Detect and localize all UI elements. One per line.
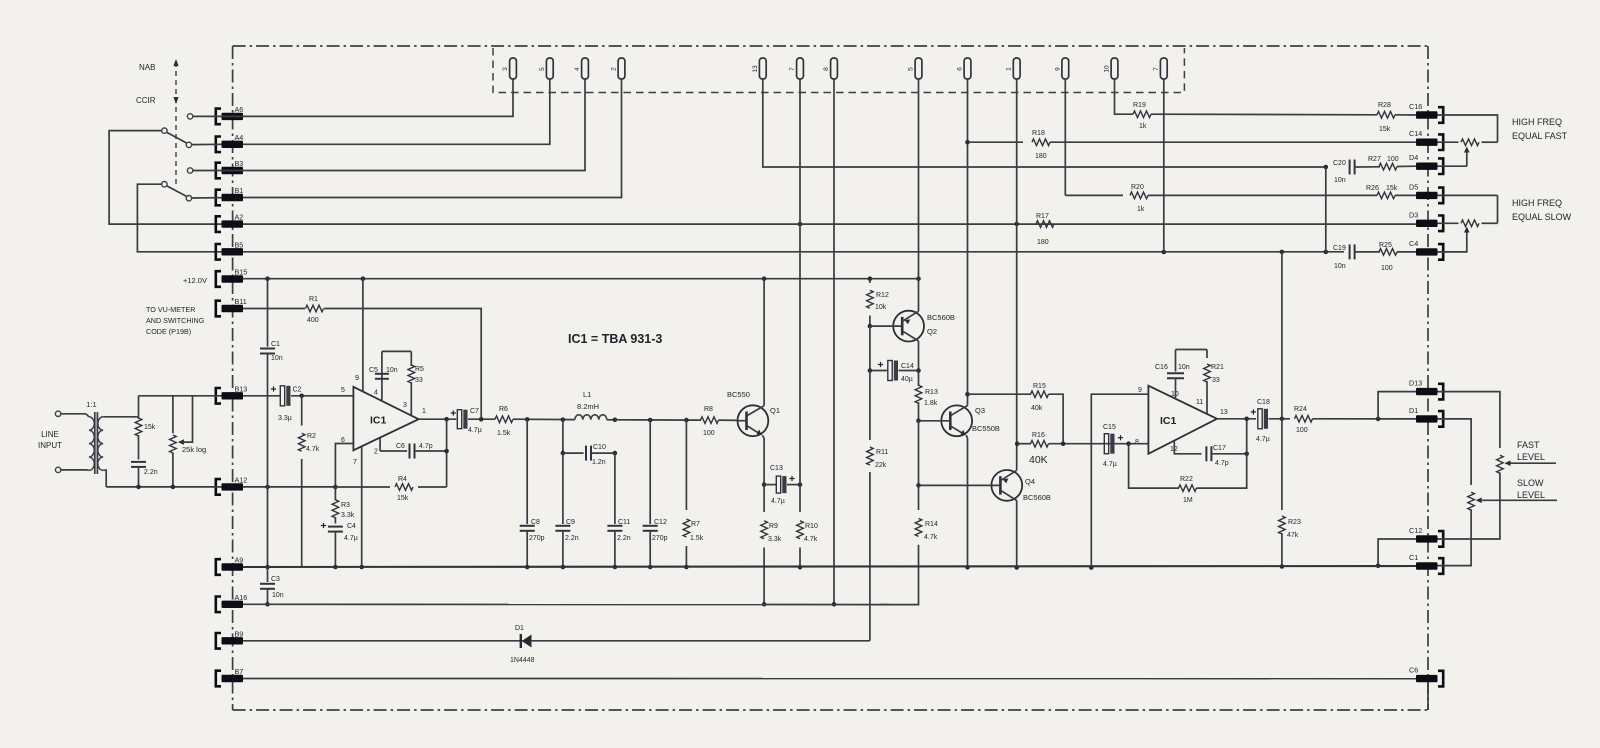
frame: right dash-dot border (1427, 46, 1429, 710)
svg-text:1: 1 (1006, 67, 1013, 71)
switch S2 throw contact (186, 196, 191, 201)
resistor R15 (40k) (968, 383, 1064, 444)
connector box (dashed) (493, 48, 1184, 93)
wire: C6 pad to bottom border (1427, 682, 1429, 710)
wire: secondary bottom to A12 row (103, 470, 106, 487)
svg-text:R10: R10 (805, 523, 818, 530)
svg-text:A4: A4 (235, 133, 244, 142)
resistor R14 (4.7k) (880, 485, 938, 604)
svg-text:C19: C19 (1333, 245, 1346, 252)
svg-text:R24: R24 (1294, 406, 1307, 413)
connector pin 13 (x=762.8) (752, 58, 766, 79)
svg-text:1N4448: 1N4448 (510, 657, 535, 664)
wire: A2 row (switch S1 common to D3 pad) (243, 223, 1416, 225)
pin label 13 (IC1b) (1220, 409, 1228, 416)
svg-text:180: 180 (1035, 153, 1047, 160)
svg-text:B11: B11 (235, 297, 247, 306)
svg-text:2: 2 (374, 449, 378, 456)
polarity + of C13 (789, 476, 794, 481)
svg-text:HIGH FREQ: HIGH FREQ (1512, 117, 1562, 127)
svg-text:4.7µ: 4.7µ (1103, 461, 1117, 468)
connector pin 5 (x=918.5) (908, 58, 922, 79)
wire: Q3 base node to Q4 base node (918, 421, 920, 486)
svg-text:R6: R6 (499, 406, 508, 413)
resistor R8 (100) (701, 406, 738, 437)
svg-text:3.3k: 3.3k (341, 512, 355, 519)
resistor R11 (22k) (867, 371, 889, 641)
svg-text:BC550B: BC550B (972, 424, 1000, 433)
wire: IC1a pin2 to C6 (379, 438, 381, 451)
svg-text:3.3k: 3.3k (768, 536, 782, 543)
svg-text:15k: 15k (144, 424, 156, 431)
svg-text:Q4: Q4 (1025, 477, 1035, 486)
resistor R22 (1M) (1179, 419, 1247, 504)
junction ground/pin7 (359, 565, 364, 570)
switch S2 lever (167, 186, 187, 197)
LINE INPUT terminal lower (55, 467, 60, 472)
svg-text:R28: R28 (1378, 102, 1391, 109)
capacitor C18 (4.7u) (1256, 399, 1270, 443)
capacitor C11 (2.2n) (607, 453, 630, 567)
op-amp IC1a (TBA931 first half) (353, 387, 418, 451)
wire: pin13 vertical (x=762.8 to EQ row) (763, 79, 1326, 167)
wire: R18 row (968, 141, 1024, 143)
svg-text:R15: R15 (1033, 383, 1046, 390)
svg-text:10n: 10n (272, 592, 284, 599)
svg-text:8.2mH: 8.2mH (577, 402, 599, 411)
wire: IC1a pin9 to +12V (362, 279, 364, 392)
svg-text:R25: R25 (1379, 242, 1392, 249)
resistor R20 (1k) (1130, 184, 1148, 213)
svg-text:C16: C16 (1409, 102, 1422, 111)
resistor R24 (100) (1294, 406, 1313, 434)
connector pad D1 (1409, 406, 1443, 427)
connector pad B15 (216, 268, 247, 287)
svg-text:C12: C12 (654, 519, 667, 526)
transistor Q1 (BC550) (727, 390, 780, 436)
svg-text:4.7k: 4.7k (804, 536, 818, 543)
svg-text:SLOW: SLOW (1517, 478, 1544, 488)
polarity + of C14 (878, 362, 883, 367)
svg-text:40K: 40K (1029, 454, 1048, 466)
svg-text:R9: R9 (769, 523, 778, 530)
junction Q2 collector/C14 (916, 368, 921, 373)
capacitor C12 (270p) (643, 420, 668, 567)
svg-text:9: 9 (1054, 67, 1061, 71)
wire: R20 row (1065, 194, 1123, 196)
switch S2 pivot contact (162, 182, 167, 187)
label LINE INPUT (38, 430, 62, 450)
junction ground/C9 (561, 565, 566, 570)
connector pad C6 (1409, 666, 1443, 687)
wire: R12 node to C14 node (869, 326, 871, 370)
svg-text:R23: R23 (1288, 519, 1301, 526)
wire: B5 to output vertical with R23 (1281, 252, 1283, 510)
polarity + of C2 (271, 386, 276, 391)
svg-text:B9: B9 (235, 629, 244, 638)
wire: R22 feedback (1129, 444, 1179, 488)
svg-text:FAST: FAST (1517, 440, 1540, 450)
svg-text:C16: C16 (1155, 364, 1168, 371)
capacitor C3 (10n) (260, 567, 284, 604)
svg-text:R13: R13 (925, 389, 938, 396)
svg-text:7: 7 (353, 459, 357, 466)
junction A16/pin8 vertical (832, 602, 837, 607)
svg-text:BC560B: BC560B (927, 313, 955, 322)
wire: D13 branch (1378, 392, 1416, 419)
wire: A4 row (192, 79, 550, 145)
label +12.0V (183, 276, 207, 285)
svg-text:4.7p: 4.7p (1215, 460, 1229, 467)
junction A12/15k-2.2n (136, 485, 141, 490)
svg-text:R8: R8 (704, 406, 713, 413)
svg-text:A2: A2 (235, 213, 244, 222)
wire: pin10 vertical (x=1114.5) (1115, 79, 1134, 114)
wire: R28 to C16 pad (1395, 114, 1416, 116)
wire: A12 node to ground rail (267, 487, 269, 567)
capacitor C14 (40u) (870, 361, 919, 384)
wire: C12 pad row to ground (1378, 539, 1416, 566)
svg-text:100: 100 (1387, 156, 1399, 163)
svg-text:B3: B3 (235, 159, 244, 168)
junction B5/C19 vertical (1324, 250, 1329, 255)
resistor R13 (1.8k) (915, 385, 938, 421)
capacitor C2 (electrolytic 3.3u) (278, 386, 302, 422)
svg-text:10n: 10n (1334, 263, 1346, 270)
svg-text:4.7k: 4.7k (924, 534, 938, 541)
svg-text:C14: C14 (1409, 129, 1422, 138)
junction ground/C4 (333, 565, 338, 570)
resistor R25 (1379, 242, 1397, 272)
connector pad A16 (216, 593, 247, 612)
svg-text:IC1: IC1 (1160, 415, 1177, 427)
connector pad D13 (1409, 379, 1443, 400)
wire: Q3 emitter to ground (966, 435, 967, 567)
wire: L1 right to junction (607, 419, 615, 421)
capacitor C17 (4.7p) (1206, 445, 1246, 467)
wire: R24 to D1 pad (1313, 418, 1417, 420)
svg-text:NAB: NAB (139, 63, 155, 72)
svg-text:+12.0V: +12.0V (183, 276, 207, 285)
junction output/feedback (IC1b) (1244, 417, 1249, 422)
wire: D4 pad to FAST wiper (1438, 165, 1467, 167)
svg-text:R20: R20 (1131, 184, 1144, 191)
junction B5/output vertical (1280, 250, 1285, 255)
resistor R4 (15k feedback) (335, 476, 446, 502)
svg-text:270p: 270p (652, 535, 668, 542)
ground rail (A9 row) (243, 566, 1416, 567)
svg-text:L1: L1 (583, 390, 591, 399)
svg-text:C17: C17 (1213, 445, 1226, 452)
svg-text:10: 10 (1104, 65, 1111, 73)
transistor Q2 (BC560B) (870, 311, 955, 342)
svg-text:R12: R12 (876, 292, 889, 299)
svg-text:C2: C2 (293, 387, 302, 394)
svg-text:A6: A6 (235, 105, 244, 114)
connector pad A6 (216, 105, 243, 124)
svg-text:9: 9 (355, 375, 359, 382)
svg-text:33: 33 (415, 377, 423, 384)
svg-text:C6: C6 (396, 443, 405, 450)
pin label 3 (403, 402, 407, 409)
capacitor C6 (4.7p) (380, 443, 447, 459)
svg-text:TO VU-METER: TO VU-METER (146, 305, 195, 314)
wire: secondary top to 15k node (103, 396, 138, 417)
junction feedback/C6 (444, 449, 449, 454)
junction R11 top/C14 (868, 368, 873, 373)
junction ground/Q3 emitter (965, 565, 970, 570)
svg-text:INPUT: INPUT (38, 441, 62, 450)
wire: D13 pad to FAST LEVEL pot (1438, 392, 1500, 448)
wire: D5 pad to corner (1438, 194, 1498, 196)
svg-text:10n: 10n (1178, 364, 1190, 371)
resistor R16 (40k) (1017, 432, 1101, 466)
junction output row/B5 vertical (1280, 417, 1285, 422)
svg-text:5: 5 (341, 387, 345, 394)
svg-text:1.5k: 1.5k (497, 430, 511, 437)
svg-text:11: 11 (1196, 399, 1203, 406)
label TO VU-METER (146, 305, 205, 336)
svg-text:Q2: Q2 (927, 327, 937, 336)
connector pin 4 (x=585.0) (574, 58, 588, 79)
wire: Q4 collector to ground (1016, 501, 1018, 568)
svg-text:8: 8 (823, 67, 830, 71)
svg-text:100: 100 (1296, 427, 1308, 434)
potentiometer 25k log (170, 396, 207, 487)
open contact at B3 row (187, 168, 192, 173)
capacitor C20 (10n) (1333, 160, 1355, 185)
wire: R6 to L1 node (513, 418, 575, 420)
wire: C4 pad to SLOW wiper (1438, 231, 1467, 252)
wiper arrow FAST LEVEL (1505, 460, 1557, 466)
wire: B13 row (input node) (139, 395, 281, 397)
connector pad C12 (1409, 526, 1443, 547)
svg-text:C1: C1 (271, 341, 280, 348)
svg-text:R11: R11 (876, 449, 888, 456)
wire: Q3 collector rise (967, 394, 969, 405)
connector pin 8 (x=834.0) (823, 58, 837, 79)
svg-text:15k: 15k (1379, 126, 1391, 133)
resistor R17 (1036, 213, 1054, 246)
svg-text:22k: 22k (875, 462, 887, 469)
LINE INPUT terminal upper (55, 411, 60, 416)
svg-text:4: 4 (574, 67, 581, 71)
svg-text:R4: R4 (398, 476, 407, 483)
svg-text:4.7p: 4.7p (419, 443, 433, 450)
transistor Q3 (BC550B) (919, 405, 1000, 436)
wiper arrow 25k pot (178, 396, 193, 445)
svg-text:100: 100 (1381, 265, 1393, 272)
svg-text:Q1: Q1 (770, 406, 780, 415)
svg-text:4.7µ: 4.7µ (468, 427, 482, 434)
potentiometer FAST EQ (on C14 row) (1438, 139, 1498, 146)
svg-text:IC1: IC1 (370, 415, 387, 427)
junction A16/R9 (762, 602, 767, 607)
svg-text:1: 1 (422, 408, 426, 415)
potentiometer FAST LEVEL (1497, 455, 1504, 473)
wire: FAST LEVEL pot to C12 row (1438, 472, 1500, 539)
junction signal/L1 right (613, 418, 618, 423)
resistor R3 (3.3k) (332, 487, 355, 524)
junction +12V/Q2 emitter (pin 5 feed) (916, 276, 921, 281)
wire: IC1a output (419, 418, 457, 420)
svg-text:R21: R21 (1211, 364, 1224, 371)
wire: C18 to R24 (1269, 418, 1291, 420)
svg-text:A12: A12 (235, 475, 248, 484)
svg-text:C4: C4 (1409, 239, 1418, 248)
svg-text:2.2n: 2.2n (565, 535, 579, 542)
pin label 8 (IC1b) (1135, 439, 1139, 446)
transistor Q4 (BC560B) (919, 470, 1051, 502)
svg-text:D1: D1 (1409, 406, 1418, 415)
wire: feedback vertical (446, 419, 448, 487)
svg-text:13: 13 (752, 65, 759, 73)
svg-text:3.3µ: 3.3µ (278, 415, 292, 422)
resistor R6 (1.5k) (495, 406, 513, 437)
wire: S2 common to B5 row (137, 184, 221, 252)
svg-text:47k: 47k (1287, 532, 1299, 539)
svg-text:R27: R27 (1368, 156, 1381, 163)
junction Q1 emitter/C13 (762, 482, 767, 487)
svg-text:2.2n: 2.2n (617, 535, 631, 542)
svg-text:R22: R22 (1180, 476, 1193, 483)
resistor R21 (33) (1204, 350, 1224, 414)
svg-text:A9: A9 (235, 556, 244, 565)
wire: pin7b vertical (x=1163.8) (1163, 79, 1165, 252)
svg-text:7: 7 (1153, 67, 1160, 71)
svg-text:B15: B15 (235, 268, 248, 277)
wire: +12V rail (B15 row) (243, 278, 919, 280)
wiper arrow FAST EQ pot (1464, 147, 1470, 167)
capacitor C8 (270p) (520, 419, 545, 567)
wiper arrow SLOW pot (1464, 227, 1470, 233)
capacitor C4 (4.7u) (328, 523, 358, 567)
svg-text:8: 8 (1135, 439, 1139, 446)
svg-text:4: 4 (374, 390, 378, 397)
svg-text:1:1: 1:1 (86, 400, 96, 409)
svg-text:C20: C20 (1333, 160, 1346, 167)
svg-text:IC1 = TBA 931-3: IC1 = TBA 931-3 (568, 332, 662, 346)
wire: IC1b output (1217, 418, 1256, 420)
resistor R9 (3.3k) (761, 485, 782, 605)
pin label 9 (IC1b) (1138, 387, 1142, 394)
wire: pin6 vertical (x=967.5) (967, 79, 969, 394)
pin label 11 (IC1b) (1196, 399, 1203, 406)
wire: A6 row (193, 79, 513, 116)
junction ground/C11 (613, 565, 618, 570)
junction pin8/R22 drop (1126, 441, 1131, 446)
wire: R18 to C14 pad (1050, 141, 1416, 143)
resistor R12 (10k) (867, 279, 889, 326)
svg-text:2.2n: 2.2n (144, 469, 158, 476)
transformer T1 secondary winding (98, 417, 103, 471)
open contact at A6 row (187, 114, 192, 119)
connector pad C14 (1409, 129, 1443, 150)
svg-text:1.8k: 1.8k (924, 400, 938, 407)
svg-text:C18: C18 (1257, 399, 1270, 406)
svg-text:BC550: BC550 (727, 390, 750, 399)
label HIGH FREQ EQUAL SLOW (1512, 198, 1572, 222)
svg-text:3: 3 (403, 402, 407, 409)
svg-text:180: 180 (1037, 239, 1049, 246)
wire: B5 row (243, 251, 1344, 253)
svg-text:R2: R2 (307, 433, 316, 440)
svg-text:CCIR: CCIR (136, 96, 156, 105)
svg-text:Q3: Q3 (975, 406, 985, 415)
polarity + of C18 (1251, 409, 1256, 414)
connector pin 9 (x=1065.3) (1054, 58, 1068, 79)
wire: C16 pad to corner (1438, 115, 1498, 142)
wire: IC1b pin12 to C17 (1174, 441, 1201, 454)
svg-text:1M: 1M (1183, 497, 1193, 504)
connector pad A2 (216, 213, 243, 232)
junction ground/C1 vertical (265, 565, 270, 570)
NAB-CCIR dashed travel line (175, 62, 177, 184)
svg-text:R14: R14 (925, 521, 938, 528)
junction D13 branch (1376, 417, 1381, 422)
junction A2/pin7-vertical (798, 222, 803, 227)
svg-text:15k: 15k (1386, 185, 1398, 192)
junction +12V/C1 (265, 276, 270, 281)
svg-text:2: 2 (611, 67, 618, 71)
pin label 1 (422, 408, 426, 415)
junction Q4 base row (916, 483, 921, 488)
svg-text:R26: R26 (1366, 185, 1379, 192)
capacitor C1 (10n decoupling) (260, 279, 283, 487)
capacitor C19 (1333, 244, 1355, 270)
svg-text:C12: C12 (1409, 526, 1422, 535)
capacitor C5 (10n comp) (369, 367, 398, 379)
junction output/feedback (444, 417, 449, 422)
resistor R5 (33) (408, 351, 424, 415)
svg-text:270p: 270p (529, 535, 545, 542)
svg-text:D3: D3 (1409, 210, 1418, 219)
svg-text:C14: C14 (901, 363, 914, 370)
svg-text:C8: C8 (531, 519, 540, 526)
potentiometer SLOW LEVEL (1468, 492, 1475, 510)
svg-text:R18: R18 (1032, 130, 1045, 137)
junction C17/feedback vertical (1244, 452, 1249, 457)
wire: pin8 vertical (x=834) (833, 79, 835, 604)
junction Q3 collector/R15 row (965, 392, 970, 397)
svg-text:4.7µ: 4.7µ (1256, 436, 1270, 443)
svg-text:10k: 10k (875, 304, 887, 311)
wire: C20 to R27 (1355, 166, 1380, 168)
connector pin 3 (x=513.0) (502, 58, 516, 79)
capacitor 2.2n (input) (131, 462, 158, 487)
label IC1 = TBA 931-3 (568, 332, 662, 346)
svg-text:1k: 1k (1139, 123, 1147, 130)
connector pad D3 (1409, 210, 1443, 231)
wire: SLOW pair coupling (D5 to D3 right ends) (1497, 195, 1499, 223)
junction pin6/R3/R4/A12 (333, 485, 338, 490)
label SLOW LEVEL (1517, 478, 1545, 500)
svg-text:10n: 10n (271, 355, 283, 362)
pin label 2 (374, 449, 378, 456)
wiper arrow SLOW LEVEL (1476, 498, 1557, 504)
junction C13/R10/pin-vertical (798, 482, 803, 487)
junction ground/C12 branch (1376, 564, 1381, 569)
wire: IC1a pin7 to ground (361, 447, 363, 567)
connector pad B7 (216, 667, 243, 686)
svg-text:R5: R5 (415, 366, 424, 373)
junction A12/C1-C3 vertical (265, 485, 270, 490)
wire: A16 row (243, 603, 919, 605)
junction ground/C12 (648, 565, 653, 570)
label HIGH FREQ EQUAL FAST (1512, 117, 1568, 141)
wire: pin9 vertical (x=1065.3) (1064, 79, 1066, 195)
connector pin 2 (x=621.5) (611, 58, 625, 79)
